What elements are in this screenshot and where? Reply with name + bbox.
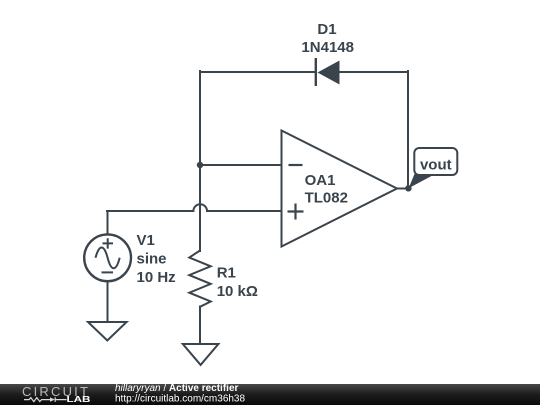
svg-text:D1: D1 — [317, 21, 336, 38]
op-amp noninverting pin plus sign — [288, 204, 304, 220]
node flag vout — [409, 148, 458, 188]
svg-text:R1: R1 — [217, 265, 236, 282]
wire vertical to R1 — [199, 165, 201, 251]
wire noninverting input with hop over vertical wire — [107, 204, 281, 211]
wire V1 bottom — [107, 281, 109, 322]
svg-text:sine: sine — [137, 251, 167, 268]
node vout junction dot — [405, 185, 411, 191]
op-amp OA1 — [282, 131, 398, 247]
svg-text:V1: V1 — [137, 232, 155, 249]
svg-text:1N4148: 1N4148 — [301, 39, 354, 56]
CircuitLab logo schematic squiggle diode — [50, 397, 55, 401]
wire right output vertical — [407, 71, 409, 186]
svg-text:10 kΩ: 10 kΩ — [217, 283, 258, 300]
junction node at inverting input — [197, 162, 203, 168]
op-amp inverting pin minus sign — [289, 164, 303, 166]
wire top feedback left segment — [200, 71, 315, 73]
V1 minus sign — [102, 271, 114, 273]
ground under V1 — [88, 322, 127, 341]
V1 plus sign — [103, 238, 114, 248]
wire V1 top — [107, 211, 109, 235]
diode D1 — [316, 58, 340, 86]
wire top feedback right segment — [338, 71, 407, 73]
wire op-amp output — [397, 188, 408, 190]
svg-text:OA1: OA1 — [305, 172, 336, 189]
wire R1 bottom — [199, 307, 201, 345]
svg-text:vout: vout — [420, 156, 452, 173]
svg-text:10 Hz: 10 Hz — [137, 269, 176, 286]
svg-text:hillaryryan / Active rectifier: hillaryryan / Active rectifier — [115, 383, 239, 394]
ground under R1 — [183, 344, 219, 365]
svg-text:TL082: TL082 — [305, 189, 348, 206]
wire inverting input — [200, 164, 281, 166]
V1 sine waveform — [96, 247, 120, 268]
CircuitLab logo schematic squiggle resistor — [24, 398, 50, 402]
wire left feedback vertical — [199, 71, 201, 165]
voltage source V1 — [84, 234, 131, 281]
svg-text:http://circuitlab.com/cm36h38: http://circuitlab.com/cm36h38 — [115, 394, 245, 405]
svg-text:LAB: LAB — [67, 395, 91, 404]
resistor R1 — [189, 251, 210, 307]
